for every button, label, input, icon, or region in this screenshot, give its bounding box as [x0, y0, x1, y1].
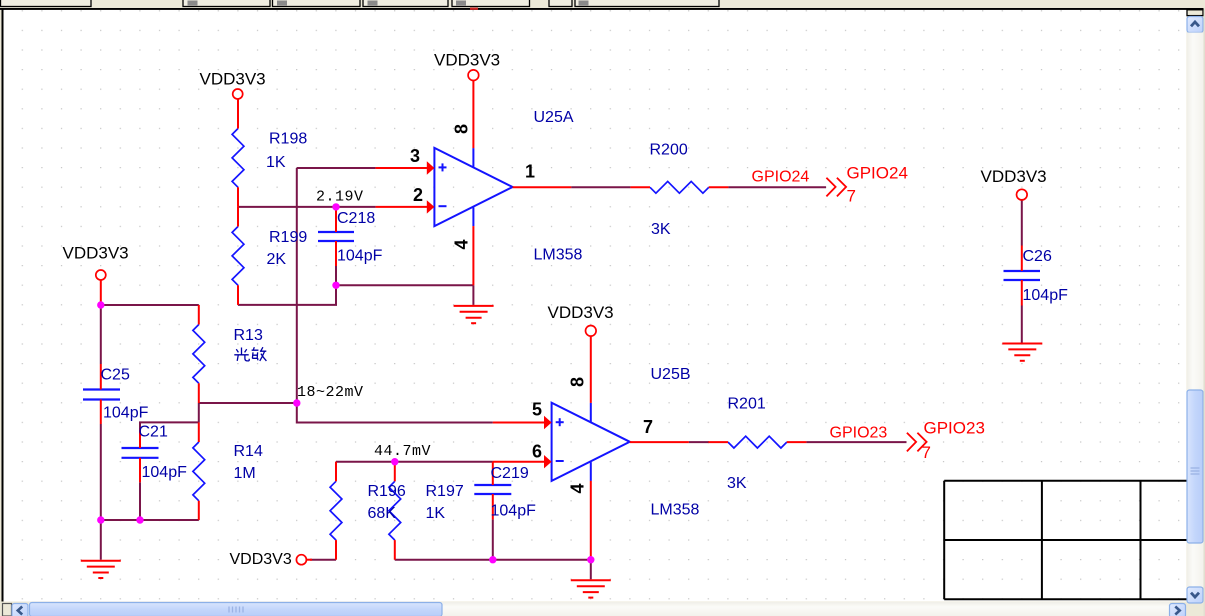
wire: bottom-left net C25/C21/R14 — [101, 519, 199, 521]
resistor R197 body — [389, 481, 401, 540]
op-amp U25B pin5 lead and arrow — [493, 416, 552, 429]
wire: U25B pin4 node to ground symbol — [590, 560, 592, 580]
resistor R199 pins — [237, 207, 239, 305]
junction node left rail bottom — [97, 516, 104, 523]
toolbar box 6 — [549, 0, 572, 7]
svg-text:68K: 68K — [368, 505, 397, 522]
svg-text:7: 7 — [643, 417, 653, 437]
sheet left border — [2, 8, 4, 602]
red origin tick on border — [470, 8, 478, 10]
wire: U25A output to R200 — [571, 186, 630, 188]
svg-text:4: 4 — [452, 239, 472, 249]
op-amp U25A — [434, 148, 512, 226]
svg-text:VDD3V3: VDD3V3 — [434, 51, 500, 70]
power port VDD3V3 above R198 — [233, 89, 243, 99]
toolbar box 2 — [183, 0, 270, 7]
ground symbol C26 — [1002, 344, 1042, 361]
svg-text:7: 7 — [922, 443, 931, 462]
resistor R199 body — [232, 227, 244, 286]
wire: C218 bottom pin to node — [335, 266, 337, 285]
svg-text:3K: 3K — [651, 221, 671, 238]
svg-text:104pF: 104pF — [103, 405, 149, 422]
svg-text:C218: C218 — [337, 210, 375, 227]
power port VDD3V3 left rail — [96, 270, 106, 305]
capacitor C26 body — [1004, 271, 1041, 280]
resistor R196 body — [330, 481, 342, 540]
junction node U25B pin4 — [587, 556, 594, 563]
svg-text:VDD3V3: VDD3V3 — [200, 70, 266, 89]
junction node 18~22mV — [293, 399, 300, 406]
svg-text:2K: 2K — [267, 251, 287, 268]
resistor R13 body — [193, 325, 205, 384]
vertical scrollbar track — [1187, 33, 1204, 588]
resistor R198 pins — [237, 99, 239, 207]
wire: C218 bottom to U25A pin4 — [336, 284, 473, 286]
wire: C219 bottom to ground net — [492, 519, 494, 559]
power port VDD3V3 right — [1017, 189, 1028, 200]
svg-text:R200: R200 — [650, 142, 688, 159]
svg-text:GPIO24: GPIO24 — [847, 164, 908, 183]
wire: U25A pin3 corner down to 18~22mV node — [296, 168, 298, 403]
toolbar box 4 — [363, 0, 448, 7]
wire: left rail below C25 — [100, 424, 102, 520]
wire: left rail node to ground symbol — [100, 520, 102, 560]
ground symbol left rail — [81, 561, 121, 578]
svg-text:4: 4 — [568, 483, 588, 493]
vertical scrollbar thumb — [1187, 390, 1203, 543]
svg-text:104pF: 104pF — [142, 464, 188, 481]
svg-text:1K: 1K — [266, 154, 286, 171]
svg-text:C219: C219 — [491, 465, 529, 482]
wire: U25A pin3 horizontal — [297, 167, 376, 169]
svg-text:VDD3V3: VDD3V3 — [230, 551, 292, 568]
op-amp U25A pin4 lead — [472, 226, 474, 285]
wire: C21 top to R14 top node — [140, 422, 199, 448]
op-amp U25B — [552, 403, 630, 481]
value of R13 photo-resistor glyphs — [234, 347, 266, 361]
junction node C219 bottom — [489, 556, 496, 563]
capacitor C25 pins — [100, 364, 102, 424]
capacitor C21 body — [122, 448, 159, 458]
svg-text:GPIO24: GPIO24 — [752, 169, 810, 186]
window right edge — [1204, 10, 1205, 616]
resistor R197 pins — [394, 462, 396, 560]
svg-text:R196: R196 — [368, 483, 406, 500]
resistor R200 body — [650, 181, 709, 193]
junction node C218 bottom — [332, 282, 339, 289]
wire: R196/R197 top node to C219 and U25B pin6 — [336, 461, 493, 463]
svg-text:U25A: U25A — [534, 109, 574, 126]
power port VDD3V3 at R196 — [296, 555, 312, 565]
vertical scrollbar area — [1187, 10, 1204, 616]
wire: VDD3V3 port to R196 bottom — [310, 559, 336, 561]
capacitor C26 pins — [1021, 246, 1023, 306]
wire: R13 bottom to R14 top — [198, 403, 200, 422]
svg-text:104pF: 104pF — [337, 248, 383, 265]
wire: R199 bottom to C218 bottom — [238, 285, 336, 305]
svg-text:C21: C21 — [139, 424, 168, 441]
svg-text:1M: 1M — [234, 465, 256, 482]
svg-text:U25B: U25B — [651, 366, 691, 383]
resistor R13 pins — [198, 305, 200, 403]
horizontal scrollbar thumb — [30, 603, 443, 616]
horizontal scrollbar track — [29, 602, 1171, 616]
svg-text:2: 2 — [413, 185, 423, 205]
op-amp U25B pin7 output lead — [630, 441, 689, 443]
op-amp U25B pin8 lead — [590, 336, 592, 403]
toolbar box 3 — [273, 0, 361, 7]
junction node C21 bottom — [136, 516, 143, 523]
resistor R14 body — [193, 442, 205, 501]
svg-text:R13: R13 — [234, 327, 263, 344]
op-amp U25B pin4 lead — [590, 481, 592, 560]
resistor R14 pins — [198, 422, 200, 520]
svg-text:5: 5 — [532, 400, 542, 420]
horizontal scrollbar splitter box — [3, 604, 12, 616]
power port VDD3V3 above U25A — [468, 70, 479, 81]
capacitor C25 body — [83, 390, 120, 400]
resistor R200 pins — [630, 186, 728, 188]
capacitor C219 body — [474, 485, 511, 494]
svg-text:7: 7 — [847, 187, 856, 206]
junction node 44.7mV — [391, 458, 398, 465]
ground symbol U25B — [571, 580, 611, 597]
capacitor C219 pins — [492, 462, 494, 520]
op-amp U25A pin1 output lead — [513, 186, 572, 188]
capacitor C21 pins — [139, 429, 141, 482]
svg-text:VDD3V3: VDD3V3 — [981, 167, 1047, 186]
op-amp U25B pin6 lead and arrow — [493, 455, 552, 468]
resistor R201 body — [728, 436, 787, 448]
power port VDD3V3 above U25B — [586, 326, 597, 337]
horizontal scrollbar left arrow button — [12, 604, 28, 616]
resistor R198 body — [232, 129, 244, 188]
wire: left VDD rail junction to R13 top — [101, 304, 199, 306]
svg-text:C26: C26 — [1023, 248, 1052, 265]
svg-text:8: 8 — [568, 377, 588, 387]
title block table — [944, 481, 1187, 600]
svg-text:R201: R201 — [728, 396, 766, 413]
svg-text:R14: R14 — [234, 443, 263, 460]
svg-text:VDD3V3: VDD3V3 — [548, 303, 614, 322]
resistor R201 pins — [708, 441, 806, 443]
svg-text:VDD3V3: VDD3V3 — [63, 244, 129, 263]
capacitor C218 pins — [335, 207, 337, 266]
wire: 18~22mV node down to U25B pin5 line — [297, 403, 493, 423]
op-amp U25A pin3 lead and arrow — [376, 161, 435, 174]
svg-text:GPIO23: GPIO23 — [830, 425, 888, 442]
wire: U25A pin4 to ground symbol — [472, 285, 474, 305]
toolbar box 1 — [1, 0, 92, 7]
junction node divider 2.19V — [332, 203, 339, 210]
wire: R197/C219/U25B-pin4 ground net — [395, 559, 591, 561]
op-amp U25A pin2 lead and arrow — [376, 200, 435, 213]
wire: C21 bottom to bottom-left net — [139, 482, 141, 520]
vertical scrollbar splitter box — [1187, 10, 1203, 16]
wire: R13 bottom node to 18~22mV junction — [199, 402, 297, 404]
vertical scrollbar down arrow button — [1187, 587, 1203, 603]
svg-text:GPIO23: GPIO23 — [924, 419, 985, 438]
wire: C26 bottom to ground — [1021, 306, 1023, 344]
svg-text:2.19V: 2.19V — [316, 188, 364, 205]
vertical scrollbar up arrow button — [1187, 17, 1203, 33]
wire: R200 to GPIO24 port — [728, 186, 826, 188]
svg-text:3K: 3K — [727, 475, 747, 492]
horizontal scrollbar right arrow button — [1170, 604, 1186, 616]
svg-text:LM358: LM358 — [651, 502, 700, 519]
svg-text:R197: R197 — [426, 483, 464, 500]
svg-text:6: 6 — [532, 442, 542, 462]
horizontal scrollbar strip — [0, 602, 1205, 616]
svg-text:18~22mV: 18~22mV — [297, 384, 364, 401]
wire: left rail upper segment — [100, 305, 102, 364]
op-amp U25A pin8 lead — [472, 80, 474, 148]
capacitor C218 body — [318, 232, 354, 241]
svg-text:R199: R199 — [269, 229, 307, 246]
sheet top border — [0, 8, 1204, 10]
svg-text:C25: C25 — [101, 367, 130, 384]
port GPIO24 chevron — [826, 178, 846, 197]
wire: R201 to GPIO23 port — [806, 441, 906, 443]
junction node left rail top — [97, 301, 104, 308]
wire: U25B output to R201 — [689, 441, 709, 443]
toolbar box 5 — [452, 0, 530, 7]
ground symbol U25A — [454, 306, 494, 323]
svg-text:LM358: LM358 — [534, 247, 583, 264]
svg-text:1K: 1K — [426, 505, 446, 522]
svg-text:104pF: 104pF — [491, 503, 537, 520]
svg-text:104pF: 104pF — [1023, 287, 1069, 304]
svg-text:1: 1 — [525, 162, 535, 182]
wire: R198/R199 divider node to C218 and pin2 — [238, 206, 376, 208]
wire: VDD3V3 to C26 — [1021, 200, 1023, 246]
svg-text:8: 8 — [452, 124, 472, 134]
port GPIO23 chevron — [907, 433, 927, 452]
toolbar box 7 — [575, 0, 719, 7]
resistor R196 pins — [335, 462, 337, 560]
svg-text:R198: R198 — [269, 131, 307, 148]
svg-text:44.7mV: 44.7mV — [374, 443, 431, 460]
svg-text:3: 3 — [410, 146, 420, 166]
